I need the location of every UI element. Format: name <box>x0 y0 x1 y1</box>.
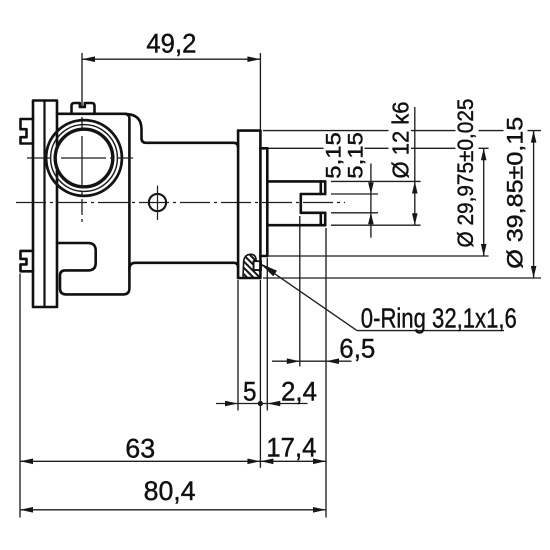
svg-text:Ø 39,85±0,15: Ø 39,85±0,15 <box>503 117 528 269</box>
svg-text:6,5: 6,5 <box>339 334 375 364</box>
svg-text:63: 63 <box>125 434 155 464</box>
svg-text:5,15: 5,15 <box>323 132 346 179</box>
svg-text:5,15: 5,15 <box>344 132 367 179</box>
svg-text:5: 5 <box>243 377 257 407</box>
svg-text:Ø 29,975±0,025: Ø 29,975±0,025 <box>453 99 478 248</box>
svg-text:49,2: 49,2 <box>146 29 196 59</box>
svg-text:80,4: 80,4 <box>144 476 196 506</box>
svg-text:2,4: 2,4 <box>281 377 317 407</box>
svg-text:Ø 12 k6: Ø 12 k6 <box>388 102 414 179</box>
svg-text:0-Ring 32,1x1,6: 0-Ring 32,1x1,6 <box>361 303 517 334</box>
svg-text:17,4: 17,4 <box>266 433 316 463</box>
